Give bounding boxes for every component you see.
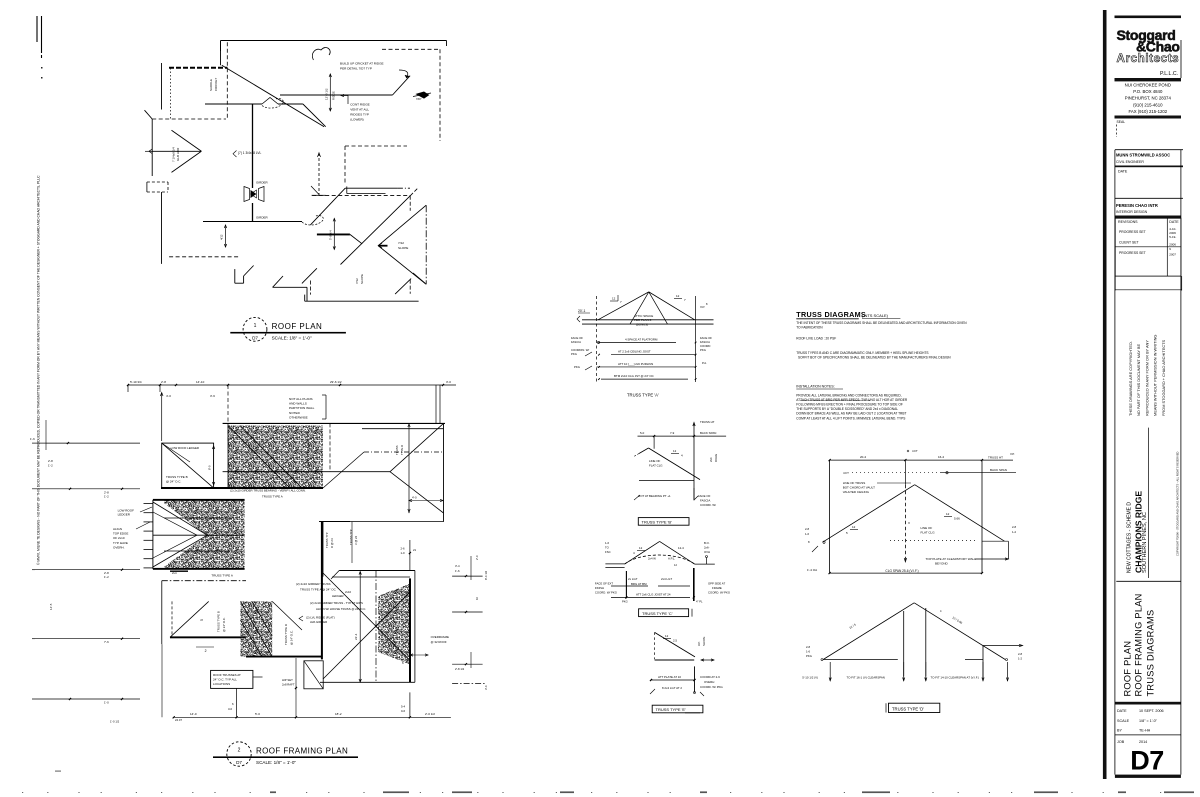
svg-text:LOCATIONS: LOCATIONS — [213, 682, 230, 686]
svg-text:2x4 W: 2x4 W — [648, 557, 656, 561]
svg-text:SCALE: 1/8" = 1'-0": SCALE: 1/8" = 1'-0" — [256, 760, 296, 765]
svg-text:SOUTHERN PINES, NC: SOUTHERN PINES, NC — [1142, 512, 1148, 573]
svg-text:2007: 2007 — [1169, 252, 1176, 256]
svg-text:MEANS WITHOUT PERMISSION IN WR: MEANS WITHOUT PERMISSION IN WRITING — [1153, 335, 1158, 416]
svg-text:3'-4: 3'-4 — [455, 564, 460, 568]
svg-text:CLG SPAN 25-6 (V.I.F.): CLG SPAN 25-6 (V.I.F.) — [885, 569, 918, 573]
svg-text:TRUSS HT: TRUSS HT — [700, 420, 715, 424]
svg-text:FOLLOWING MFGS ERECTION + FINA: FOLLOWING MFGS ERECTION + FINAL PROCEDUR… — [796, 403, 903, 407]
svg-text:12'-9 1/2: 12'-9 1/2 — [325, 88, 329, 100]
svg-text:5-4: 5-4 — [401, 705, 405, 709]
svg-text:2.5: 2.5 — [673, 639, 677, 643]
svg-text:NOT ALL PLANS: NOT ALL PLANS — [289, 397, 313, 401]
svg-text:4" PL: 4" PL — [696, 600, 703, 604]
svg-text:OPP SIDE AT: OPP SIDE AT — [708, 582, 725, 586]
svg-text:7/12: 7/12 — [355, 278, 359, 284]
svg-text:1'-0 1/2: 1'-0 1/2 — [110, 720, 120, 724]
svg-text:4 SPACE AT PLATFORM: 4 SPACE AT PLATFORM — [625, 338, 658, 342]
svg-text:TO FIT 16-1 (V) CLEARSPAN: TO FIT 16-1 (V) CLEARSPAN — [847, 676, 885, 680]
svg-text:2x4 LGT: 2x4 LGT — [661, 577, 672, 581]
svg-text:D @ 24: D @ 24 — [330, 538, 334, 548]
svg-text:OVERH.: OVERH. — [113, 545, 125, 549]
svg-text:24.07: 24.07 — [175, 718, 182, 722]
svg-text:7/D7: 7/D7 — [416, 97, 422, 101]
svg-text:CONT RIDGE: CONT RIDGE — [350, 103, 369, 107]
svg-text:LOW ROOF LEDGER: LOW ROOF LEDGER — [171, 446, 199, 450]
svg-text:TRUSS: TRUSS — [395, 445, 399, 455]
svg-text:4'-0: 4'-0 — [166, 394, 171, 398]
svg-text:SCALE: 1/8" = 1'-0": SCALE: 1/8" = 1'-0" — [272, 335, 312, 340]
svg-text:12: 12 — [665, 634, 669, 638]
svg-text:12-4: 12-4 — [678, 546, 684, 550]
svg-text:Architects: Architects — [1117, 52, 1180, 65]
svg-text:PROGRESS SET: PROGRESS SET — [1119, 230, 1146, 234]
svg-text:3-0: 3-0 — [228, 707, 232, 711]
svg-text:© MMVI, MILNE TE DESIGNS - NO: © MMVI, MILNE TE DESIGNS - NO PART OF TH… — [37, 175, 41, 565]
svg-text:1'-0: 1'-0 — [104, 701, 109, 705]
svg-text:TRUSS TYPE A @ 24" O.C.: TRUSS TYPE A @ 24" O.C. — [306, 430, 310, 468]
svg-text:@ 32 ROOF: @ 32 ROOF — [431, 640, 447, 644]
svg-text:3'-6: 3'-6 — [210, 394, 215, 398]
svg-text:3'-6: 3'-6 — [484, 685, 488, 690]
svg-text:FLAT CLG: FLAT CLG — [649, 464, 663, 468]
svg-text:(2) 2x10 GIRDER TRUSS - TYP AT: (2) 2x10 GIRDER TRUSS - TYP AT HIPS — [310, 601, 363, 605]
svg-text:21: 21 — [413, 548, 417, 552]
svg-text:TRUSS DIAGRAMS: TRUSS DIAGRAMS — [796, 310, 866, 319]
svg-text:VAULTED CEILING: VAULTED CEILING — [843, 490, 870, 494]
svg-text:TE-HH: TE-HH — [1139, 729, 1151, 733]
svg-text:2-8: 2-8 — [1018, 652, 1022, 656]
svg-text:ROOF TRUSSES AT: ROOF TRUSSES AT — [213, 673, 241, 677]
svg-text:PKG: PKG — [574, 365, 580, 369]
svg-text:20-4: 20-4 — [860, 455, 866, 459]
svg-text:5'-0: 5'-0 — [255, 712, 260, 716]
svg-text:VENT AT ALL: VENT AT ALL — [350, 108, 369, 112]
svg-text:@ 24" O.C.: @ 24" O.C. — [222, 617, 226, 632]
svg-text:COORD. W/ PKG: COORD. W/ PKG — [708, 591, 730, 595]
svg-text:0-6: 0-6 — [401, 709, 405, 713]
svg-text:SCALE: SCALE — [1117, 719, 1130, 723]
svg-text:7'-6: 7'-6 — [104, 640, 109, 644]
svg-text:BOT CHORD AT VAULT: BOT CHORD AT VAULT — [843, 486, 875, 490]
svg-text:4/12: 4/12 — [220, 234, 224, 240]
svg-text:RIDGE: RIDGE — [332, 91, 336, 100]
svg-text:18'-2: 18'-2 — [335, 712, 342, 716]
svg-text:NOTED: NOTED — [289, 411, 301, 415]
svg-text:TRUSS HT: TRUSS HT — [988, 456, 1003, 460]
svg-text:CRICKET: CRICKET — [214, 78, 218, 91]
svg-text:1'-6: 1'-6 — [455, 569, 460, 573]
svg-text:22'-4: 22'-4 — [354, 633, 358, 640]
svg-text:TRUSS DIAGRAMS: TRUSS DIAGRAMS — [1146, 610, 1156, 697]
svg-text:12: 12 — [852, 525, 856, 529]
svg-text:LINE OF: LINE OF — [921, 526, 933, 530]
svg-text:10: 10 — [475, 596, 479, 600]
svg-text:AND WALLS: AND WALLS — [289, 402, 307, 406]
svg-text:PKG: PKG — [622, 600, 628, 604]
svg-text:THE INTENT OF THESE TRUSS DIAG: THE INTENT OF THESE TRUSS DIAGRAMS SHALL… — [796, 321, 967, 325]
svg-text:2x LGT: 2x LGT — [628, 577, 638, 581]
svg-text:BACK SPAN: BACK SPAN — [990, 468, 1007, 472]
svg-text:OTHERWISE: OTHERWISE — [289, 415, 308, 419]
svg-text:7-9: 7-9 — [670, 431, 675, 435]
svg-text:TRUSS TYPE 'C': TRUSS TYPE 'C' — [642, 611, 673, 616]
svg-text:FASCIA: FASCIA — [700, 499, 710, 503]
svg-text:1/8" = 1'-0": 1/8" = 1'-0" — [1139, 719, 1158, 723]
svg-text:JOB: JOB — [1117, 740, 1125, 744]
svg-text:DATE: DATE — [1117, 709, 1127, 713]
svg-text:4 FT: 4 FT — [912, 449, 918, 453]
svg-text:2x6: 2x6 — [709, 457, 713, 462]
svg-text:OVERH: OVERH — [704, 680, 714, 684]
svg-text:DOWN BOT BRACE AS WELL AS MA: DOWN BOT BRACE AS WELL AS MAY BE LAID OU… — [796, 412, 906, 416]
svg-text:SADDLE: SADDLE — [209, 79, 213, 91]
svg-text:FAX (910) 215-1202: FAX (910) 215-1202 — [1128, 109, 1167, 114]
svg-text:TRUSS TYPE A: TRUSS TYPE A — [262, 495, 283, 499]
svg-text:FASCIA: FASCIA — [571, 340, 581, 344]
svg-text:DATE: DATE — [1118, 170, 1128, 174]
svg-text:8'-0: 8'-0 — [208, 465, 212, 470]
svg-text:TRUSS TYPE B: TRUSS TYPE B — [217, 611, 221, 632]
svg-text:GLB HDR: GLB HDR — [176, 147, 180, 161]
svg-text:14'-10: 14'-10 — [196, 380, 205, 384]
svg-text:TOP EDGE: TOP EDGE — [113, 532, 128, 536]
svg-text:5-0: 5-0 — [640, 431, 645, 435]
svg-text:2: 2 — [205, 649, 207, 653]
svg-text:16-4: 16-4 — [938, 455, 944, 459]
svg-text:PINEHURST, NC 28374: PINEHURST, NC 28374 — [1125, 96, 1172, 101]
svg-text:5'-8 3/4: 5'-8 3/4 — [329, 230, 333, 240]
svg-text:SOFFIT BOT OF SPECIFICATIONS S: SOFFIT BOT OF SPECIFICATIONS SHALL BE DE… — [798, 356, 951, 360]
svg-text:COORD. W/ PKG: COORD. W/ PKG — [700, 685, 724, 689]
svg-text:1'-2: 1'-2 — [104, 494, 109, 498]
svg-text:ROOF FRAMING PLAN: ROOF FRAMING PLAN — [256, 747, 348, 756]
svg-text:TOP PLATE AT CLEARSTORY WALL: TOP PLATE AT CLEARSTORY WALL — [926, 557, 977, 561]
svg-text:ATT 10 [___] 2x6 PURLINS: ATT 10 [___] 2x6 PURLINS — [618, 362, 653, 366]
svg-text:B.O.: B.O. — [704, 541, 710, 545]
svg-text:FACE OF EXT: FACE OF EXT — [595, 582, 613, 586]
svg-text:SLOPE: SLOPE — [398, 246, 408, 250]
svg-text:SLOPE: SLOPE — [360, 274, 364, 284]
svg-text:TRUSS TYPE 'B': TRUSS TYPE 'B' — [642, 519, 673, 524]
svg-text:TO FABRICATION: TO FABRICATION — [796, 326, 823, 330]
svg-text:HIP SET: HIP SET — [282, 678, 293, 682]
svg-text:MUNN STROMWILD ASSOC: MUNN STROMWILD ASSOC — [1116, 153, 1170, 158]
svg-text:2-8: 2-8 — [806, 645, 810, 649]
svg-text:TO FIT 14-10 CLEARSPAN AT (: TO FIT 14-10 CLEARSPAN AT (V.I.F.) — [931, 676, 979, 680]
svg-text:TRUSS TYPE 'A': TRUSS TYPE 'A' — [627, 393, 659, 398]
svg-text:7/12: 7/12 — [398, 241, 404, 245]
svg-text:(LOWER): (LOWER) — [350, 118, 363, 122]
svg-text:PKG: PKG — [571, 352, 577, 356]
svg-text:12: 12 — [639, 546, 643, 550]
svg-text:GIRDER: GIRDER — [256, 216, 269, 220]
svg-text:PER DETAIL 7/D7 TYP: PER DETAIL 7/D7 TYP — [340, 67, 372, 71]
svg-text:1-2: 1-2 — [1018, 657, 1022, 661]
svg-text:1: 1 — [254, 323, 257, 329]
svg-text:GIRDER: GIRDER — [256, 181, 269, 185]
svg-text:[BONUS]: [BONUS] — [636, 322, 648, 326]
svg-text:NUI CHEROKEE POND: NUI CHEROKEE POND — [1125, 83, 1171, 88]
svg-text:2x10: 2x10 — [345, 590, 352, 594]
svg-text:TRUSS TYPE 'E': TRUSS TYPE 'E' — [656, 707, 687, 712]
svg-text:LINE OF TRUSS: LINE OF TRUSS — [843, 481, 866, 485]
svg-text:4 FT: 4 FT — [843, 471, 849, 475]
svg-text:ALIGN: ALIGN — [113, 527, 122, 531]
svg-text:2x6-: 2x6- — [704, 546, 710, 550]
svg-text:5'-10 3/4: 5'-10 3/4 — [130, 380, 142, 384]
svg-text:3'-0: 3'-0 — [446, 380, 451, 384]
svg-text:P.O. BOX 4840: P.O. BOX 4840 — [1133, 89, 1163, 94]
svg-text:THESE DRAWINGS ARE COPYRIGHTED: THESE DRAWINGS ARE COPYRIGHTED. — [1128, 341, 1133, 416]
svg-text:24" O.C. TYP ALL: 24" O.C. TYP ALL — [213, 678, 237, 682]
svg-text:V.P.: V.P. — [697, 641, 701, 646]
svg-text:12: 12 — [673, 449, 677, 453]
svg-text:V.P.: V.P. — [1010, 452, 1015, 456]
svg-text:TYPE D: TYPE D — [400, 445, 404, 455]
svg-text:(2) LVL RIDGE (FLAT): (2) LVL RIDGE (FLAT) — [306, 616, 335, 620]
svg-text:RIDGE: RIDGE — [197, 521, 201, 530]
svg-text:DATE: DATE — [1169, 220, 1179, 224]
svg-text:TRUSS TYPE A @ 24" OC: TRUSS TYPE A @ 24" OC — [300, 588, 337, 592]
svg-text:5: 5 — [200, 619, 204, 621]
svg-text:TRUSS TYPE A: TRUSS TYPE A — [211, 574, 232, 578]
svg-text:BUILD UP CRICKET AT RIDGE: BUILD UP CRICKET AT RIDGE — [340, 62, 384, 66]
svg-text:(2) 2x10 GIRDER TRUSS BEARING: (2) 2x10 GIRDER TRUSS BEARING - VERIFY A… — [230, 489, 306, 493]
svg-text:14'-0: 14'-0 — [190, 712, 197, 716]
svg-text:ROOF LIVE LOAD : 20 PSF: ROOF LIVE LOAD : 20 PSF — [796, 337, 836, 341]
svg-text:1'-6: 1'-6 — [30, 437, 35, 441]
svg-text:20'-1: 20'-1 — [578, 309, 586, 313]
svg-text:1'-2: 1'-2 — [48, 464, 53, 468]
svg-text:@ 24" O.C.: @ 24" O.C. — [290, 630, 294, 645]
svg-text:BOT AT BEARING PT +1: BOT AT BEARING PT +1 — [638, 494, 671, 498]
svg-text:2'-8: 2'-8 — [48, 459, 53, 463]
svg-text:SEAL: SEAL — [1117, 120, 1126, 124]
svg-text:AT 2 2x6 CEILING JOIST: AT 2 2x6 CEILING JOIST — [618, 350, 651, 354]
svg-text:BEYOND: BEYOND — [935, 562, 949, 566]
svg-text:COPYRIGHT ©2006 - STOGGARD AND: COPYRIGHT ©2006 - STOGGARD AND CHAO ARCH… — [1176, 451, 1180, 556]
svg-text:SLOPE: SLOPE — [702, 637, 706, 646]
svg-text:COORD. W/: COORD. W/ — [700, 503, 716, 507]
svg-text:2'-8 1/2: 2'-8 1/2 — [455, 667, 465, 671]
svg-text:ROOF PLAN: ROOF PLAN — [1123, 641, 1133, 697]
svg-text:CIVIL ENGINEER: CIVIL ENGINEER — [1116, 160, 1144, 164]
svg-text:LEDGER: LEDGER — [118, 513, 131, 517]
svg-text:A.P.L.: A.P.L. — [668, 557, 675, 561]
svg-text:2: 2 — [238, 748, 241, 754]
svg-text:TRUSS TYPE B: TRUSS TYPE B — [166, 475, 188, 479]
svg-text:CLIENT SET: CLIENT SET — [1119, 241, 1139, 245]
svg-text:FINISH: FINISH — [595, 586, 604, 590]
svg-text:10 SEPT. 2006: 10 SEPT. 2006 — [1139, 709, 1164, 713]
svg-text:1-2: 1-2 — [1012, 530, 1016, 534]
svg-text:4'-0: 4'-0 — [412, 496, 417, 500]
svg-text:TRUSS TYPE 'D': TRUSS TYPE 'D' — [892, 706, 924, 711]
svg-text:2'-8: 2'-8 — [161, 380, 166, 384]
svg-text:12: 12 — [612, 297, 616, 301]
svg-text:FSC: FSC — [605, 550, 611, 554]
svg-text:NO PART OF THIS DOCUMENT MAY B: NO PART OF THIS DOCUMENT MAY BE — [1136, 343, 1141, 416]
svg-text:INTERIOR DESIGN: INTERIOR DESIGN — [1116, 210, 1148, 214]
svg-text:8 2x4 LGT AT 2: 8 2x4 LGT AT 2 — [662, 686, 682, 690]
svg-text:REPRODUCED IN ANY FORM OR BY A: REPRODUCED IN ANY FORM OR BY ANY — [1144, 340, 1149, 416]
svg-text:TRUSS TYP: TRUSS TYP — [349, 529, 353, 545]
svg-text:FRAME: FRAME — [712, 586, 722, 590]
svg-text:P.A.: P.A. — [702, 361, 707, 365]
svg-text:INSTALLATION NOTES:: INSTALLATION NOTES: — [796, 385, 834, 389]
svg-text:2014: 2014 — [1139, 740, 1147, 744]
svg-text:BTM 2x10 CLG JST @ 24" OC: BTM 2x10 CLG JST @ 24" OC — [614, 374, 654, 378]
svg-text:COMP AT LEAST AT ALL 4 LIFT: COMP AT LEAST AT ALL 4 LIFT POINTS. MINI… — [796, 416, 905, 420]
svg-text:1-6: 1-6 — [805, 532, 809, 536]
svg-text:1-6: 1-6 — [806, 650, 810, 654]
svg-text:(7) 1 3/4x18 LVL: (7) 1 3/4x18 LVL — [238, 151, 262, 155]
svg-text:7 1/4x9 1/4: 7 1/4x9 1/4 — [172, 147, 176, 162]
svg-text:1-0: 1-0 — [401, 551, 405, 555]
svg-text:( NTS SCALE): ( NTS SCALE) — [862, 313, 889, 318]
svg-text:ATT PLATE AT 10: ATT PLATE AT 10 — [658, 675, 681, 679]
svg-text:2x8 RAFT: 2x8 RAFT — [282, 683, 295, 687]
svg-text:PERESIN CHAO INTR: PERESIN CHAO INTR — [1116, 203, 1158, 208]
svg-text:2'-0 1/2: 2'-0 1/2 — [425, 712, 435, 716]
svg-text:1'-2: 1'-2 — [104, 575, 109, 579]
svg-text:5-19-: 5-19- — [1169, 235, 1176, 239]
svg-text:THE SUPPORTS BY A "DOUBLE SCI: THE SUPPORTS BY A "DOUBLE SCISSORED" AND… — [796, 407, 898, 411]
svg-text:3 @ 24: 3 @ 24 — [354, 535, 358, 545]
svg-text:NEW COTTAGES - SCHEME D: NEW COTTAGES - SCHEME D — [1127, 502, 1133, 573]
svg-text:REVISIONS: REVISIONS — [1118, 220, 1138, 224]
svg-text:2-6: 2-6 — [401, 547, 405, 551]
svg-text:AVA GIRDER: AVA GIRDER — [310, 620, 327, 624]
svg-text:BY: BY — [1117, 729, 1122, 733]
svg-text:D7: D7 — [236, 760, 242, 765]
svg-text:TYP. EAVE: TYP. EAVE — [113, 541, 128, 545]
svg-text:PKG: PKG — [806, 654, 812, 658]
svg-text:ROOF PLAN: ROOF PLAN — [272, 322, 323, 331]
svg-text:RIDGES TYP: RIDGES TYP — [350, 113, 369, 117]
svg-text:COORD. W/ PKG: COORD. W/ PKG — [595, 591, 617, 595]
svg-text:29'-6 1/2: 29'-6 1/2 — [330, 380, 342, 384]
svg-text:PROGRESS SET: PROGRESS SET — [1119, 251, 1146, 255]
svg-text:12: 12 — [676, 294, 680, 298]
svg-text:(2) 2x10 GIRDER TRUSS: (2) 2x10 GIRDER TRUSS — [296, 582, 330, 586]
svg-text:D7: D7 — [252, 336, 258, 341]
svg-text:TRUSS TYPE D: TRUSS TYPE D — [284, 624, 288, 645]
svg-text:PROVIDE ALL LATERAL BRACING AN: PROVIDE ALL LATERAL BRACING AND CONNECTO… — [796, 394, 901, 398]
svg-text:1'-4 OA: 1'-4 OA — [807, 568, 817, 572]
svg-text:1-6: 1-6 — [605, 541, 609, 545]
svg-text:2-8: 2-8 — [805, 527, 809, 531]
svg-text:PKG: PKG — [700, 348, 706, 352]
svg-text:ROOF FRAMING PLAN: ROOF FRAMING PLAN — [1134, 593, 1144, 696]
svg-text:COORD AT 2-6: COORD AT 2-6 — [700, 675, 720, 679]
svg-text:V.P.: V.P. — [700, 305, 705, 309]
svg-text:OVHG: OVHG — [714, 454, 718, 462]
svg-text:OVERFRAME: OVERFRAME — [431, 635, 449, 639]
svg-text:FROM STOGGARD + CHAO ARCHITECT: FROM STOGGARD + CHAO ARCHITECTS — [1161, 339, 1166, 416]
svg-text:OF 2x10: OF 2x10 — [113, 536, 125, 540]
svg-text:14'-5: 14'-5 — [49, 603, 53, 610]
svg-text:LINE OF: LINE OF — [649, 459, 660, 463]
svg-text:FLAT CLG: FLAT CLG — [921, 531, 936, 535]
svg-text:5.66: 5.66 — [954, 517, 960, 521]
svg-text:@ 24" O.C.: @ 24" O.C. — [166, 480, 181, 484]
svg-text:2'-0: 2'-0 — [475, 555, 479, 560]
svg-text:OVH: OVH — [704, 550, 710, 554]
svg-text:X: X — [908, 521, 910, 525]
svg-text:5'-10 1/2 (V): 5'-10 1/2 (V) — [802, 676, 818, 680]
svg-text:12: 12 — [946, 512, 950, 516]
svg-text:8'-6 1/2: 8'-6 1/2 — [484, 570, 488, 580]
svg-text:2-8: 2-8 — [1012, 525, 1016, 529]
svg-text:LEDGER: LEDGER — [332, 594, 344, 598]
svg-text:D7: D7 — [1130, 746, 1164, 776]
svg-text:(910) 215-4610: (910) 215-4610 — [1133, 102, 1163, 107]
svg-text:P.L.L.C.: P.L.L.C. — [1160, 71, 1178, 77]
svg-text:BRG AT BM: BRG AT BM — [631, 582, 647, 586]
svg-text:TRUSS TYP: TRUSS TYP — [325, 532, 329, 548]
svg-text:TRUSS TYPES B AND C ARE DIAGRA: TRUSS TYPES B AND C ARE DIAGRAMMATIC ONL… — [796, 351, 928, 355]
svg-text:ATT 2x6 CLG JOIST AT 24: ATT 2x6 CLG JOIST AT 24 — [636, 593, 671, 597]
svg-text:BACK SPAN: BACK SPAN — [700, 431, 716, 435]
svg-text:PARTITION WALL: PARTITION WALL — [289, 406, 315, 410]
